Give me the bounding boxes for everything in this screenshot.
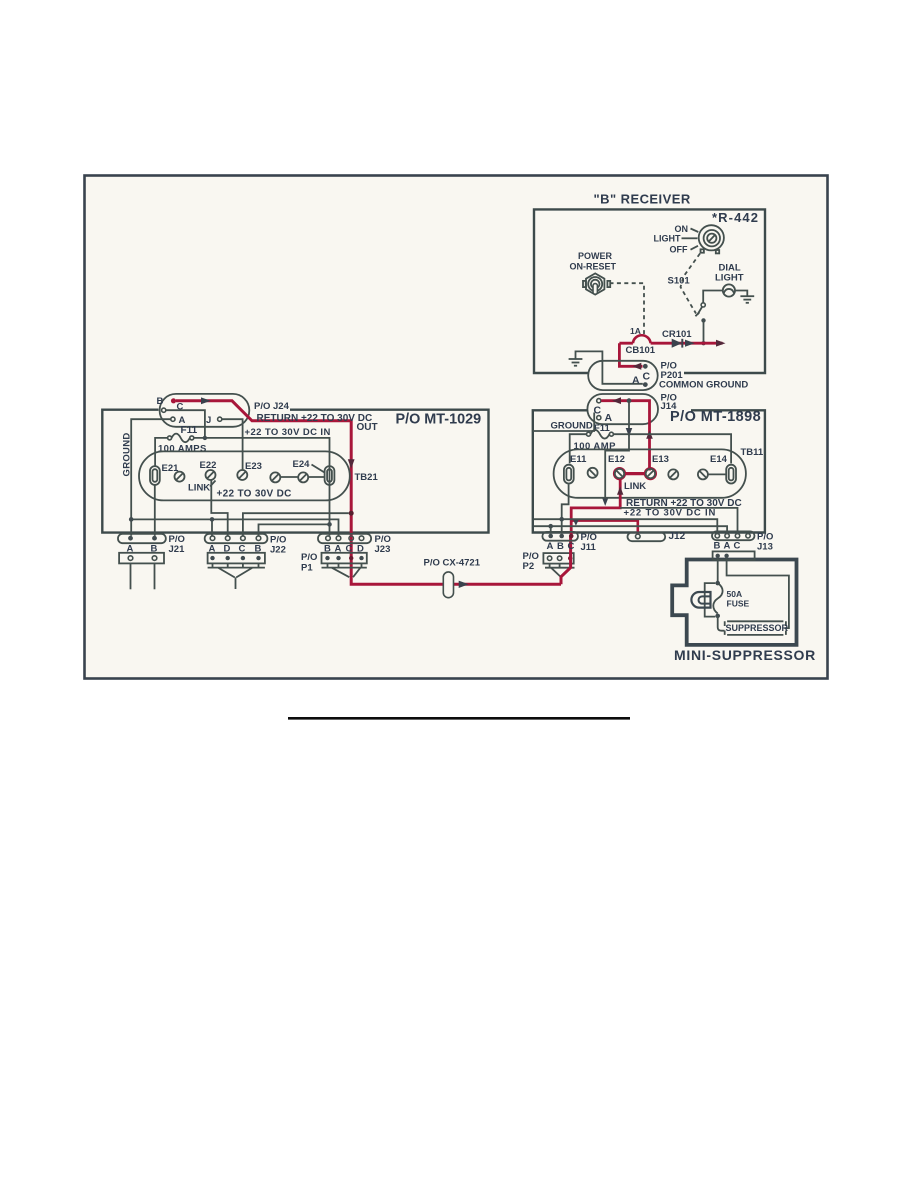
svg-text:"B" RECEIVER: "B" RECEIVER [594, 192, 691, 207]
label POWER ON-RESET [570, 251, 617, 271]
connector J12 shell [628, 532, 666, 541]
label E23 [245, 461, 262, 472]
label S101 [668, 276, 691, 287]
node ground rail at J24-A drop [129, 517, 134, 522]
svg-text:OUT: OUT [357, 422, 378, 433]
wire pin to fuse node [717, 558, 719, 583]
svg-text:B: B [714, 540, 721, 551]
connector P201 [588, 361, 658, 390]
plug P1 shell [322, 553, 367, 564]
screw terminal E21 [175, 472, 185, 482]
svg-text:RETURN +22 TO 30V DC: RETURN +22 TO 30V DC [257, 413, 373, 424]
label 100 AMPS [158, 444, 207, 455]
label E21 [162, 463, 180, 474]
flow arrow up toward E13 [646, 430, 653, 439]
svg-text:FUSE: FUSE [727, 598, 750, 608]
label P/O MT-1029 [396, 411, 482, 427]
node P201 pin C [643, 364, 648, 369]
wire fuse right lead +22V IN rail [194, 438, 330, 536]
connector J23 shell [318, 534, 371, 543]
svg-text:C: C [568, 541, 575, 552]
svg-text:ON: ON [675, 224, 689, 234]
flow arrow on J24 red wire [201, 397, 211, 404]
caption rule line [288, 717, 630, 720]
node junction on J14 wire [627, 398, 632, 403]
node red wire junction to J22 C [349, 511, 354, 516]
dashed mechanical link rotary to S101 contact [681, 254, 701, 314]
node +22V IN rail junction [327, 522, 332, 527]
svg-text:+22 TO 30V DC: +22 TO 30V DC [217, 488, 292, 499]
pin J21 A [128, 536, 133, 541]
label "B" RECEIVER [594, 192, 691, 207]
screw terminal E11 [588, 468, 598, 478]
svg-text:E23: E23 [245, 461, 262, 472]
label RETURN +22 TO 30V DC [626, 498, 742, 509]
wire screw to E14 post [708, 473, 727, 475]
svg-text:P/O MT-1898: P/O MT-1898 [670, 409, 761, 425]
flow arrow into J14 pin C [612, 397, 621, 404]
pin J14 A contact [597, 416, 601, 420]
label P/O MT-1898 [670, 409, 761, 425]
label 1A [630, 326, 641, 336]
label LINK [624, 481, 646, 492]
pin labels A D C B (J22) [209, 543, 262, 554]
label DIAL LIGHT [715, 263, 744, 284]
pin label A (J14) [605, 412, 613, 424]
node lower rail at J11-A [548, 524, 553, 529]
screw terminal TB11 unlabeled a [668, 469, 678, 479]
label LIGHT with tick [654, 234, 698, 244]
fuse F11 100 AMPS [168, 434, 194, 443]
wire RETURN +22V OUT from J24 pin B (red main) [176, 401, 561, 585]
label TB21 [355, 472, 379, 483]
wire fuse left lead to E21 post [155, 438, 168, 466]
ground in receiver [569, 359, 583, 366]
screw terminal E24 a [270, 472, 280, 482]
fuse holder outline [705, 583, 716, 617]
suppressor block label frame [725, 621, 786, 635]
wire +22V IN branch to J12 (red) [571, 521, 638, 534]
wire fuse to SUPPRESSOR [718, 616, 725, 631]
wires below J21 plug [131, 563, 155, 589]
pins J22 A D C B [210, 536, 261, 541]
svg-text:GROUND: GROUND [551, 420, 593, 431]
node fuse top [715, 581, 720, 586]
svg-text:+22 TO 30V DC IN: +22 TO 30V DC IN [245, 427, 331, 438]
pin labels A B (J21) [127, 543, 158, 554]
flow arrow down on +22V IN branch [573, 519, 580, 526]
label E22 [200, 460, 217, 471]
svg-text:E14: E14 [710, 454, 728, 465]
wire J14 junction to RETURN line (black) [605, 401, 629, 498]
terminal post right (E24 side) [325, 466, 335, 485]
wire CB101 to P201 pin C (red) [619, 343, 642, 366]
label F11 (MT-1029) [181, 425, 198, 436]
wire J22 pin C to red +22V line [243, 513, 349, 535]
screw terminal E23 [237, 470, 247, 480]
arrow end of receiver feed wire [716, 340, 726, 347]
label +22 TO 30V DC IN [245, 427, 331, 438]
svg-text:J23: J23 [375, 544, 391, 555]
label MINI-SUPPRESSOR [674, 647, 816, 663]
wire E24 screws link [281, 476, 298, 478]
wire J11 pin A stub [550, 526, 552, 534]
label P/O J24 [254, 401, 290, 412]
label 100 AMP [574, 441, 617, 452]
label OUT [357, 422, 378, 433]
cable harness below P1 [322, 563, 367, 577]
wire J22 pin B to +22V IN rail [259, 524, 330, 535]
node J24 pin B (red) [171, 398, 176, 403]
pin J12 [636, 534, 641, 539]
svg-text:CR101: CR101 [662, 329, 692, 340]
svg-text:OFF: OFF [670, 245, 688, 255]
svg-text:MINI-SUPPRESSOR: MINI-SUPPRESSOR [674, 647, 816, 663]
label P/O J13 [757, 531, 773, 552]
label SUPPRESSOR [726, 623, 789, 633]
svg-text:*R-442: *R-442 [712, 210, 759, 225]
pins J23 B A C D [326, 536, 364, 541]
pin label A (P201) [632, 375, 640, 387]
page border frame [85, 176, 828, 679]
wire ground rail to J22 pin A and J23 pin A [131, 519, 338, 535]
node fuse bottom [715, 614, 720, 619]
label RETURN +22 TO 30V DC [257, 413, 373, 424]
wire J24 pin A to ground rail [131, 419, 171, 536]
pin labels A B C (J11) [547, 541, 575, 552]
pin J21 B [152, 536, 157, 541]
plug P1 pins [325, 556, 363, 560]
label COMMON GROUND [659, 380, 748, 391]
label CB101 [626, 345, 656, 356]
svg-text:E13: E13 [652, 454, 669, 465]
svg-text:F11: F11 [594, 423, 611, 434]
label CR101 [662, 329, 692, 340]
label +22 TO 30V DC IN (MT-1898) [624, 507, 717, 518]
wire J24 pin J to E23 [222, 419, 243, 469]
pins J11 A B C [548, 534, 573, 539]
svg-text:J13: J13 [757, 541, 773, 552]
svg-text:LINK: LINK [188, 483, 210, 494]
label *R-442 [712, 210, 759, 225]
label E24 with pointer [293, 459, 325, 473]
terminal post E11 [564, 465, 574, 484]
label LINK with pointer [188, 481, 216, 494]
svg-text:P/O MT-1029: P/O MT-1029 [396, 411, 482, 427]
pin J24 A contact [171, 417, 175, 421]
wire ground rail to J13 pin B [534, 519, 717, 534]
connector J14 [587, 394, 658, 424]
fuse 50A element [713, 583, 722, 613]
pin J14 C contact [597, 399, 601, 403]
terminal board TB21 [139, 451, 350, 500]
fuse cap symbol [691, 592, 710, 608]
label GROUND (vertical, MT-1029) [122, 432, 133, 476]
pin labels B A C (J13) [714, 540, 741, 551]
plug P2 pins [547, 556, 572, 560]
terminal board TB11 [554, 449, 746, 497]
flow arrow into P201 pin C [632, 363, 641, 370]
connector J21 shell [118, 534, 166, 543]
svg-text:J11: J11 [581, 542, 597, 553]
"B" RECEIVER enclosure box [534, 209, 765, 373]
terminal post left (E21 side) [150, 466, 160, 485]
label P/O P201 [661, 361, 684, 381]
label P/O J21 [169, 534, 186, 555]
label 50A FUSE [727, 589, 750, 608]
label E14 [710, 454, 728, 465]
svg-text:E22: E22 [200, 460, 217, 471]
suppressor input connector shell [713, 551, 755, 560]
pin J24 J contact [218, 417, 222, 421]
label P/O J22 [270, 535, 286, 556]
toggle switch POWER ON-RESET [583, 273, 610, 294]
plug shell below J22 [208, 553, 265, 564]
svg-text:E11: E11 [570, 454, 587, 465]
wire fuse to E11 post [570, 434, 587, 463]
wire lamp left lead to switch contact [703, 291, 723, 303]
svg-text:100 AMP: 100 AMP [574, 441, 617, 452]
node S101 fixed contact [701, 318, 705, 322]
pin label C (P201) [643, 371, 651, 383]
lamp DIAL LIGHT [723, 284, 735, 296]
suppressor connector pins [716, 554, 729, 558]
svg-text:C: C [734, 540, 741, 551]
label P/O J23 [375, 534, 391, 555]
label E12 [608, 454, 625, 465]
svg-text:B: B [557, 541, 564, 552]
svg-text:ON-RESET: ON-RESET [570, 261, 617, 271]
svg-text:P2: P2 [523, 561, 535, 572]
label P/O J14 [661, 392, 678, 412]
svg-text:A: A [632, 375, 640, 387]
svg-text:J22: J22 [270, 545, 286, 556]
pins J13 B A C - [715, 534, 750, 538]
svg-text:P1: P1 [301, 562, 313, 573]
svg-text:TB21: TB21 [355, 472, 379, 483]
svg-text:CB101: CB101 [626, 345, 656, 356]
label +22 TO 30V DC [217, 488, 292, 499]
circuit breaker CB101 [619, 335, 722, 343]
wire E21 post to J21 pin B [154, 485, 156, 536]
screw terminal E22 [206, 470, 216, 480]
node fuse rail junction [203, 436, 207, 440]
svg-text:P/O CX-4721: P/O CX-4721 [424, 557, 481, 568]
label P/O P1 [301, 552, 317, 573]
svg-text:LIGHT: LIGHT [715, 272, 744, 283]
wire pin A loop around suppressor [727, 558, 789, 628]
svg-text:J12: J12 [669, 531, 686, 542]
wire E11 post to J11 pin B [562, 484, 569, 534]
screw terminal E13 [646, 469, 655, 478]
node P201 pin A [643, 382, 648, 387]
svg-text:B: B [157, 396, 164, 407]
pin label A (J24) [179, 415, 186, 426]
svg-text:A: A [724, 540, 731, 551]
connector J13 shell [712, 531, 755, 540]
plug P2 shell [543, 553, 573, 564]
flow arrow on CB101 output wire [685, 340, 695, 347]
svg-text:J: J [206, 415, 211, 426]
label P/O J11 [581, 532, 597, 553]
fuse F11 100 AMP [587, 430, 614, 439]
wire lower ground rail to J13 pin A [534, 526, 727, 534]
screw terminal E24 b [298, 472, 308, 482]
MINI-SUPPRESSOR enclosure box [672, 560, 796, 645]
terminal post E14 [726, 465, 736, 484]
svg-text:LINK: LINK [624, 481, 646, 492]
connector J22 shell [205, 534, 268, 543]
flow arrow on CX-4721 cable [459, 581, 469, 588]
plug shell below J21 [119, 553, 164, 564]
connector J11 shell [542, 532, 578, 541]
connector J24 [160, 394, 250, 427]
svg-text:E24: E24 [293, 459, 311, 470]
link strap E12-E13 (red) [614, 468, 656, 479]
svg-text:100 AMPS: 100 AMPS [158, 444, 207, 455]
label E11 [570, 454, 587, 465]
rotary light switch (panel control of S101) [699, 225, 724, 253]
wire fuse to E14 post [613, 434, 731, 463]
svg-text:A: A [547, 541, 554, 552]
pin label C (J14) [594, 405, 602, 417]
label OFF with tick [670, 245, 699, 255]
arrow black wire into RETURN line [602, 498, 608, 506]
diode CR101 [672, 339, 683, 348]
label ON with tick [675, 224, 699, 234]
wire E12 to RETURN corner (red) [571, 479, 620, 536]
switch S101 moving contact [695, 303, 705, 316]
plug pins below J21 [128, 556, 157, 561]
cable harness below P2 [545, 564, 575, 577]
cable harness below J22 [208, 563, 265, 589]
label E13 [652, 454, 669, 465]
cable sleeve CX-4721 [443, 572, 453, 598]
label TB11 [741, 447, 764, 458]
wire RETURN to J13 pin C [620, 508, 737, 534]
pin label C (J24) [177, 402, 184, 413]
wire S101 to CB101 output line [701, 320, 705, 345]
wire E22 to J22 pin D [211, 480, 227, 536]
svg-text:LIGHT: LIGHT [654, 234, 681, 244]
pin label J (J24) [206, 415, 211, 426]
flow arrow down on black wire [626, 428, 633, 437]
screw terminal E12 [615, 469, 624, 478]
svg-text:TB11: TB11 [741, 447, 764, 458]
ground at dial light [740, 296, 754, 303]
pin label B (J24) [157, 396, 164, 407]
label J12 [669, 531, 686, 542]
svg-text:POWER: POWER [578, 251, 613, 261]
P/O MT-1898 enclosure box [533, 410, 765, 532]
wire J14 pin C feed (red) [601, 401, 649, 471]
svg-text:S101: S101 [668, 276, 691, 287]
label GROUND (MT-1898) with frame [533, 413, 594, 432]
wire lamp right lead to ground [735, 291, 747, 296]
wire P2 pin C up to J11 (red) [561, 536, 571, 585]
wire J24 pin C to fuse line [166, 410, 205, 438]
svg-text:F11: F11 [181, 425, 198, 436]
svg-text:E12: E12 [608, 454, 625, 465]
screw terminal TB11 unlabeled b [698, 469, 708, 479]
flow arrow down at TB21 right post [348, 459, 355, 468]
wire E24 screw to right post [308, 476, 325, 478]
label P/O CX-4721 [424, 557, 481, 568]
wire receiver ground to P201 pin A [576, 351, 643, 383]
P/O MT-1029 enclosure box [102, 410, 488, 533]
dashed link toggle to CB101 [610, 283, 645, 335]
svg-text:COMMON GROUND: COMMON GROUND [659, 380, 748, 391]
svg-text:+22 TO 30V DC IN: +22 TO 30V DC IN [624, 507, 717, 518]
pin J24 C contact [162, 408, 166, 412]
pin labels B A C D (J23) [324, 543, 364, 554]
node ground rail at J22-A drop [210, 517, 215, 522]
svg-text:C: C [643, 371, 651, 383]
svg-text:J21: J21 [169, 544, 186, 555]
svg-text:P/O J24: P/O J24 [254, 401, 290, 412]
node ground rail at J11-B [559, 517, 564, 522]
svg-text:SUPPRESSOR: SUPPRESSOR [726, 623, 789, 633]
label F11 (MT-1898) [594, 423, 611, 434]
flow arrow up on E12 wire [617, 486, 623, 494]
label P/O P2 [523, 551, 539, 572]
plug pins below J22 [210, 556, 260, 560]
